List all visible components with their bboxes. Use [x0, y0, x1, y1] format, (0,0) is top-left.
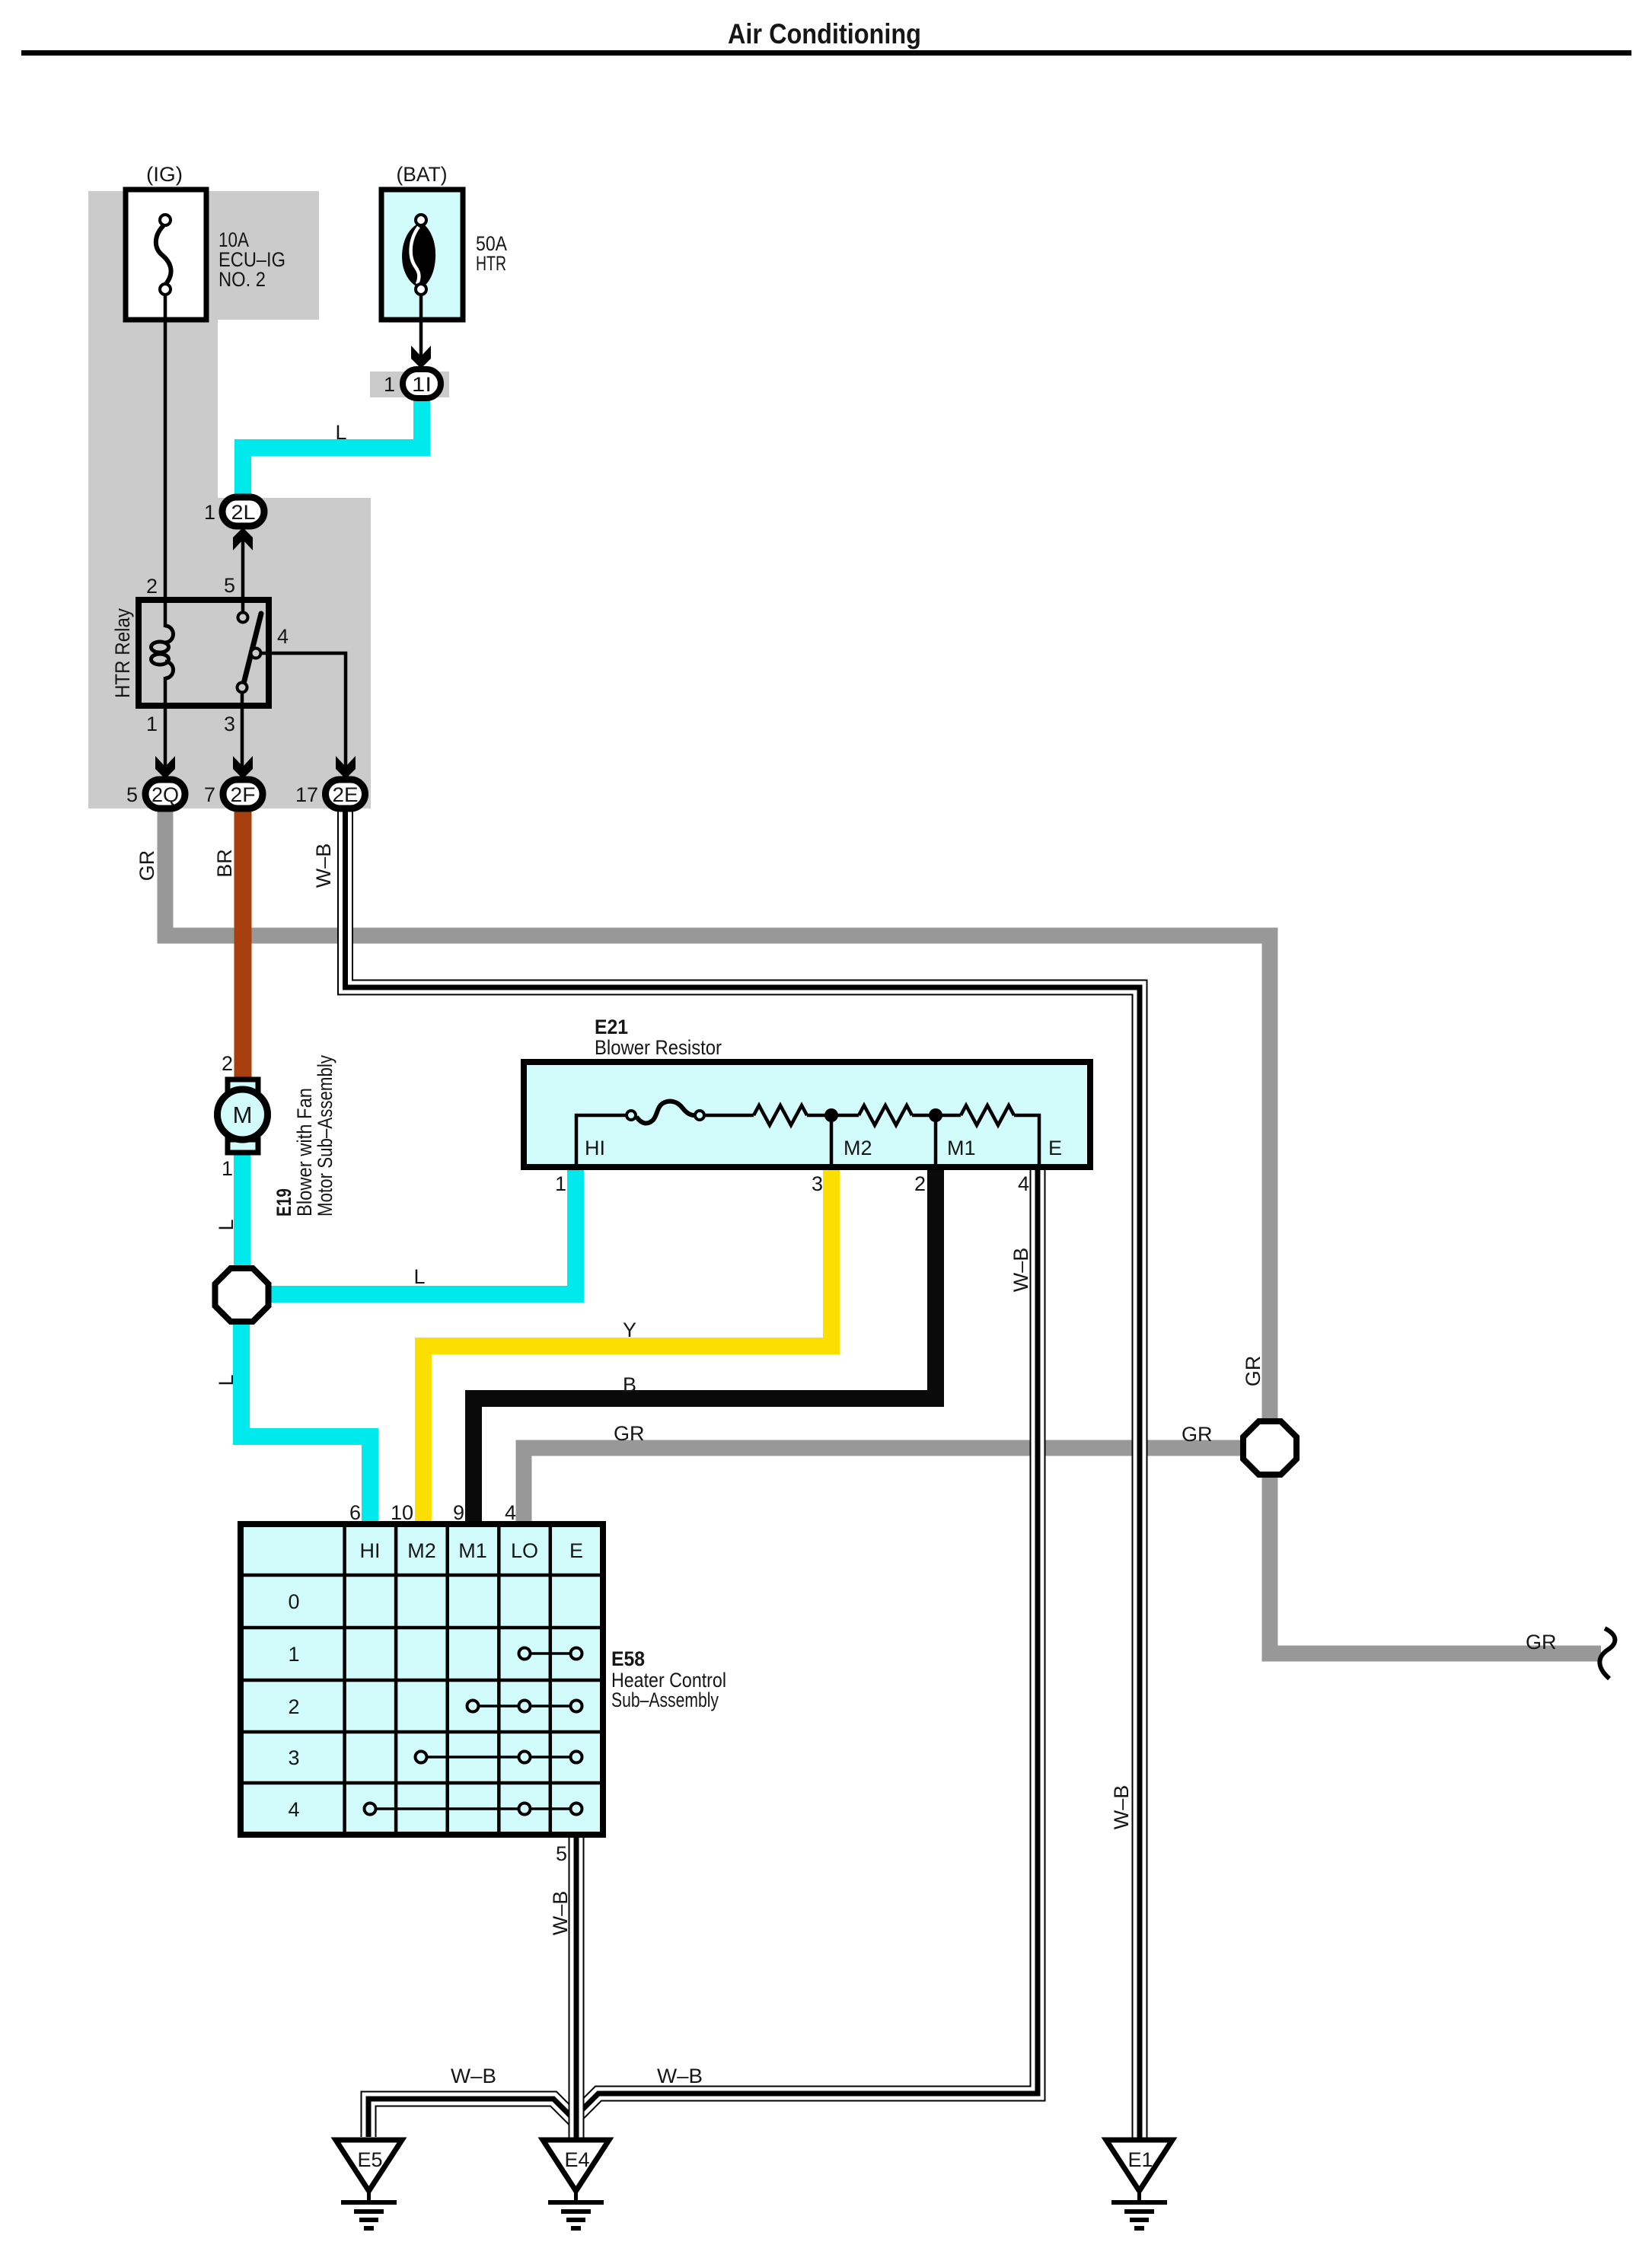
svg-text:W–B: W–B — [1110, 1785, 1133, 1830]
svg-text:7: 7 — [204, 783, 215, 806]
svg-text:4: 4 — [277, 625, 289, 648]
relay switch contact pin 5 — [238, 613, 248, 623]
svg-text:E: E — [1048, 1137, 1062, 1159]
svg-text:1: 1 — [555, 1172, 566, 1195]
relay coil — [165, 626, 174, 643]
wire BR from 2F down to blower motor — [234, 808, 252, 1079]
junction dot M1 — [929, 1108, 942, 1122]
E21 thermal fuse — [627, 1111, 636, 1120]
relay switch contact pin 4 — [251, 649, 261, 659]
HTR relay box — [139, 600, 269, 706]
svg-text:1: 1 — [204, 501, 215, 524]
shaded block around HTR relay — [88, 498, 371, 808]
resistor R2 — [859, 1105, 912, 1125]
svg-text:1I: 1I — [412, 373, 432, 396]
E21 internal HI pin line — [576, 1115, 627, 1167]
svg-text:(BAT): (BAT) — [397, 163, 448, 186]
svg-text:GR: GR — [1526, 1631, 1557, 1653]
connector 2L — [222, 497, 264, 526]
connector 1I — [403, 369, 441, 398]
shaded column below IG fuse — [88, 320, 218, 498]
resistor R1 — [754, 1105, 807, 1125]
svg-text:GR: GR — [1242, 1356, 1265, 1387]
E21 M2 pin line — [830, 1115, 834, 1167]
wire W-B from ground E5 to E4 junction — [368, 2099, 575, 2137]
svg-text:1: 1 — [384, 373, 395, 396]
svg-text:E19: E19 — [273, 1188, 295, 1217]
fusible link HTR element — [402, 222, 435, 288]
svg-text:B: B — [623, 1373, 636, 1396]
fuse ECU-IG NO.2 box — [126, 190, 206, 320]
svg-text:Blower with Fan: Blower with Fan — [293, 1088, 316, 1217]
svg-text:E1: E1 — [1127, 2148, 1153, 2171]
title rule — [21, 50, 1631, 56]
E58 grid column lines — [343, 1524, 346, 1835]
wire Y from E21 pin M2 to E58 pin 10 — [423, 1168, 831, 1524]
svg-text:HI: HI — [360, 1539, 381, 1562]
svg-text:W–B: W–B — [657, 2065, 703, 2087]
arrow into 2Q — [155, 756, 175, 779]
svg-text:5: 5 — [224, 574, 235, 597]
svg-text:M1: M1 — [947, 1137, 976, 1159]
svg-text:BR: BR — [213, 849, 236, 878]
relay switch blade — [244, 614, 261, 684]
splice octagon (GR junction) — [1243, 1421, 1296, 1475]
E58 switch row 1 — [525, 1652, 576, 1655]
svg-text:NO. 2: NO. 2 — [218, 268, 266, 291]
ground E1 — [1106, 2140, 1172, 2228]
relay coil pin 1 wire — [164, 677, 167, 771]
connector 2F — [223, 780, 263, 808]
svg-text:2E: 2E — [333, 783, 359, 806]
svg-text:1: 1 — [288, 1643, 299, 1666]
wire L from splice octagon down to E58 pin 6 — [241, 1322, 370, 1524]
wire L from splice octagon to E21 pin HI — [268, 1168, 576, 1294]
svg-text:GR: GR — [1182, 1423, 1213, 1446]
svg-text:2: 2 — [914, 1172, 926, 1195]
svg-text:L: L — [215, 1374, 238, 1386]
svg-text:M1: M1 — [458, 1539, 487, 1562]
svg-text:1: 1 — [222, 1157, 233, 1180]
svg-text:W–B: W–B — [1009, 1248, 1032, 1293]
svg-text:2: 2 — [288, 1695, 299, 1718]
shaded strip behind connector 1I — [370, 372, 449, 397]
ground E4 — [543, 2140, 609, 2228]
arrow into 2E — [336, 756, 356, 779]
relay switch contact pin 3 — [238, 683, 247, 693]
E58 switch row 4 — [370, 1807, 576, 1810]
svg-text:L: L — [215, 1219, 238, 1230]
svg-text:M2: M2 — [844, 1137, 872, 1159]
E21 line R2 to M1 junction — [912, 1114, 961, 1118]
fuse ECU-IG element — [156, 224, 171, 285]
svg-text:GR: GR — [136, 850, 158, 882]
svg-text:M2: M2 — [407, 1539, 436, 1562]
connector 2E — [326, 780, 365, 808]
wire from IG fuse to relay coil pin 2 — [164, 295, 167, 627]
wire from HTR fuse to 1I with arrow — [419, 295, 423, 361]
svg-text:W–B: W–B — [312, 843, 335, 888]
connector 2Q — [145, 780, 185, 808]
relay pin 4 wire to 2E — [261, 653, 346, 771]
svg-text:9: 9 — [453, 1501, 464, 1524]
svg-text:Sub–Assembly: Sub–Assembly — [611, 1689, 719, 1711]
svg-text:4: 4 — [505, 1501, 516, 1524]
wire B from E21 pin M1 to E58 pin 9 — [474, 1168, 936, 1524]
shaded block top-left around IG fuse — [88, 191, 319, 320]
wire GR below splice to break symbol — [1270, 1474, 1601, 1653]
svg-text:4: 4 — [1018, 1172, 1029, 1195]
E21 line R1 to M2 junction — [807, 1114, 859, 1118]
svg-text:Motor Sub–Assembly: Motor Sub–Assembly — [314, 1055, 336, 1217]
svg-text:10: 10 — [391, 1501, 413, 1524]
svg-text:1: 1 — [146, 713, 158, 735]
svg-text:3: 3 — [812, 1172, 823, 1195]
svg-text:E58: E58 — [611, 1647, 645, 1670]
E58 switch row 3 — [421, 1756, 576, 1759]
svg-text:L: L — [335, 421, 346, 444]
arrow into 2F — [233, 756, 253, 779]
svg-text:2F: 2F — [231, 783, 256, 806]
relay pin 3 wire — [241, 693, 244, 771]
svg-text:GR: GR — [614, 1422, 645, 1445]
wire W-B from E21 pin E to E4 junction — [576, 1167, 1038, 2116]
E58 switch row 2 — [473, 1705, 576, 1708]
svg-text:5: 5 — [126, 783, 138, 806]
svg-text:HTR Relay: HTR Relay — [111, 608, 134, 698]
svg-text:W–B: W–B — [451, 2065, 496, 2087]
E21 link fuse to R1 — [704, 1114, 754, 1118]
svg-text:E4: E4 — [564, 2148, 589, 2171]
blower motor M — [228, 1079, 258, 1092]
svg-text:Blower Resistor: Blower Resistor — [595, 1036, 722, 1059]
wire W-B from 2E to ground E1 — [346, 808, 1140, 2141]
svg-text:3: 3 — [288, 1746, 299, 1769]
wire GR from splice left to E58 pin 4 — [524, 1448, 1244, 1524]
E21 M1 pin line — [934, 1115, 938, 1167]
ground E5 — [336, 2140, 402, 2228]
svg-text:2: 2 — [222, 1052, 233, 1075]
svg-text:2: 2 — [146, 575, 158, 598]
svg-text:E5: E5 — [357, 2148, 382, 2171]
svg-text:L: L — [413, 1265, 425, 1288]
svg-text:(IG): (IG) — [146, 163, 183, 186]
svg-text:Air Conditioning: Air Conditioning — [728, 18, 921, 49]
svg-text:HTR: HTR — [476, 252, 506, 275]
junction dot M2 — [824, 1108, 838, 1122]
svg-text:3: 3 — [224, 713, 235, 735]
E58 Heater Control box — [241, 1524, 603, 1835]
svg-text:2L: 2L — [231, 501, 256, 524]
svg-text:E21: E21 — [595, 1016, 628, 1038]
svg-text:HI: HI — [585, 1137, 605, 1159]
svg-text:4: 4 — [288, 1798, 299, 1821]
wire W-B from E58 pin 5 to ground E4 — [569, 1835, 585, 2141]
svg-text:M: M — [233, 1102, 253, 1128]
svg-text:6: 6 — [349, 1501, 361, 1524]
svg-text:W–B: W–B — [549, 1891, 572, 1936]
svg-text:Y: Y — [623, 1319, 636, 1341]
resistor R3 — [961, 1105, 1014, 1125]
E21 Blower Resistor box — [524, 1062, 1090, 1167]
break squiggle at GR wire end — [1599, 1628, 1615, 1679]
wire L from motor to splice octagon — [234, 1152, 250, 1269]
svg-text:0: 0 — [288, 1590, 299, 1613]
arrow up into 2L — [233, 528, 253, 550]
svg-text:2Q: 2Q — [151, 783, 179, 806]
wire L from 1I to 2L — [243, 398, 422, 498]
wire GR from 2Q to right-side splice (vertical drop, long horizontal, down to octagon) — [165, 808, 1270, 1422]
E21 E pin line — [1014, 1115, 1039, 1167]
splice octagon (L junction) — [215, 1268, 269, 1322]
svg-text:17: 17 — [295, 783, 318, 806]
svg-text:5: 5 — [556, 1842, 567, 1865]
fusible link HTR box — [381, 190, 463, 320]
svg-text:E: E — [569, 1539, 583, 1562]
svg-text:LO: LO — [511, 1539, 538, 1562]
E58 grid row lines — [241, 1574, 603, 1577]
